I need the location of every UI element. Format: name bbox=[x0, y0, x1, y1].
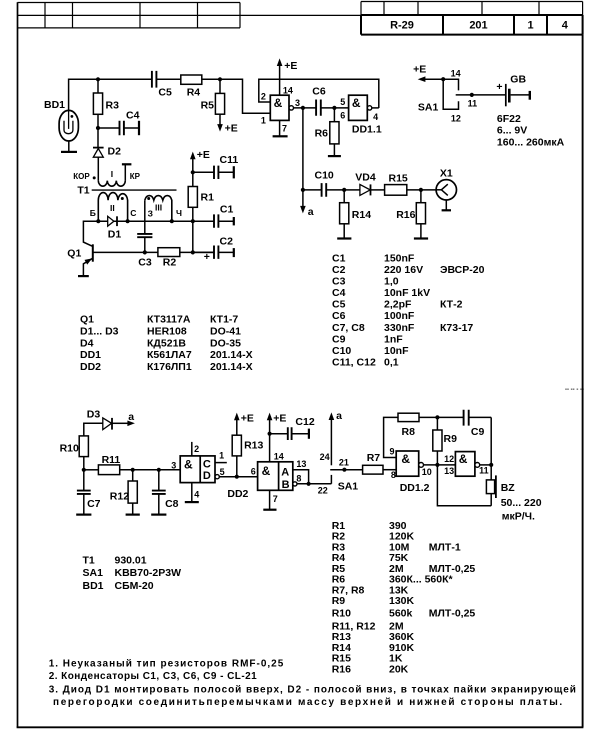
svg-text:+: + bbox=[204, 251, 210, 263]
transformer T1 winding I bbox=[98, 181, 125, 187]
resistor R3 bbox=[97, 79, 99, 93]
svg-text:C10: C10 bbox=[332, 345, 351, 357]
svg-text:C7: C7 bbox=[87, 498, 101, 510]
svg-text:6F22: 6F22 bbox=[497, 113, 521, 125]
op-amp DD1.2 gate A bbox=[396, 451, 419, 476]
svg-text:7: 7 bbox=[282, 124, 287, 134]
frame left border bbox=[17, 2, 19, 727]
svg-text:СБМ-20: СБМ-20 bbox=[115, 580, 154, 592]
svg-text:6... 9V: 6... 9V bbox=[497, 125, 527, 137]
node a arrow down bbox=[302, 190, 304, 206]
svg-text:+E: +E bbox=[284, 60, 297, 72]
svg-text:D3: D3 bbox=[87, 409, 101, 421]
svg-text:930.01: 930.01 bbox=[115, 555, 147, 567]
svg-text:SA1: SA1 bbox=[83, 567, 104, 579]
transformer T1 winding III bbox=[145, 196, 172, 222]
op-amp DD1.2 gate B bbox=[455, 452, 475, 477]
wire: link collector rail to base rail bbox=[192, 221, 194, 252]
title block top row bbox=[361, 2, 583, 16]
capacitor C7 bbox=[83, 470, 85, 491]
svg-text:Б: Б bbox=[90, 208, 96, 218]
svg-text:II: II bbox=[110, 203, 115, 213]
wire: R4 to DD1.1 pin 1 bbox=[202, 79, 270, 113]
common bar below R12 bbox=[126, 513, 140, 515]
svg-text:DD1: DD1 bbox=[80, 349, 101, 361]
svg-text:201.14-Х: 201.14-Х bbox=[210, 349, 253, 361]
svg-text:130K: 130K bbox=[389, 595, 415, 607]
svg-text:+E: +E bbox=[225, 122, 238, 134]
svg-text:Q1: Q1 bbox=[67, 248, 81, 260]
node: R2/C2 junction bbox=[191, 250, 195, 254]
svg-text:a: a bbox=[336, 410, 342, 422]
svg-text:560k: 560k bbox=[389, 608, 413, 620]
svg-text:К176ЛП1: К176ЛП1 bbox=[147, 361, 192, 373]
wire: BD1 cathode to common bbox=[68, 141, 70, 151]
svg-text:C6: C6 bbox=[332, 310, 346, 322]
node: winding II start bbox=[96, 219, 100, 223]
svg-text:10nF: 10nF bbox=[384, 345, 409, 357]
node: SA1 contacts junction bbox=[441, 77, 445, 81]
transformer T1 core bbox=[92, 189, 177, 191]
node: C10/VD4/R14 junction bbox=[342, 188, 346, 192]
svg-text:220 16V: 220 16V bbox=[384, 264, 423, 276]
transistor Q1 bbox=[92, 244, 94, 261]
svg-text:C: C bbox=[203, 459, 211, 471]
svg-text:B: B bbox=[282, 479, 290, 491]
svg-text:D4: D4 bbox=[80, 337, 94, 349]
wire: gate AB pin 13 loop to pin 8 bbox=[293, 470, 309, 484]
svg-text:1: 1 bbox=[219, 451, 224, 461]
svg-text:К561ЛА7: К561ЛА7 bbox=[147, 349, 192, 361]
svg-text:&: & bbox=[274, 96, 283, 110]
common bar below BD1 bbox=[61, 151, 77, 153]
capacitor C9 bbox=[437, 416, 491, 418]
svg-text:D1: D1 bbox=[108, 229, 122, 241]
power +E arrow below R5 bbox=[217, 124, 223, 132]
svg-text:DD1.1: DD1.1 bbox=[352, 124, 382, 136]
svg-text:4: 4 bbox=[562, 20, 569, 32]
top-left revision table bbox=[18, 3, 241, 28]
svg-text:9: 9 bbox=[390, 447, 395, 457]
capacitor C2 bbox=[193, 251, 234, 253]
svg-text:GB: GB bbox=[510, 73, 526, 85]
svg-text:8: 8 bbox=[391, 470, 396, 480]
svg-text:a: a bbox=[308, 206, 314, 218]
svg-text:&: & bbox=[262, 464, 271, 478]
common bar below R16 bbox=[414, 237, 428, 239]
svg-text:A: A bbox=[281, 467, 289, 479]
svg-text:C9: C9 bbox=[332, 333, 346, 345]
svg-text:З: З bbox=[148, 208, 153, 218]
node: C6/R6/pin5 junction bbox=[332, 106, 336, 110]
wire: pin 11 output node bbox=[480, 464, 492, 466]
svg-text:5: 5 bbox=[220, 467, 225, 477]
svg-text:1. Неуказаный тип резисторов R: 1. Неуказаный тип резисторов RMF-0,25 bbox=[49, 659, 285, 670]
svg-text:2: 2 bbox=[194, 444, 199, 454]
svg-text:R3: R3 bbox=[106, 100, 120, 112]
resistor R2 bbox=[158, 248, 180, 257]
svg-text:0,1: 0,1 bbox=[384, 356, 399, 368]
svg-text:C11: C11 bbox=[220, 154, 239, 166]
svg-text:VD4: VD4 bbox=[355, 172, 376, 184]
wire: gate AB pin 8 output to SA1 contact 22 bbox=[297, 483, 331, 485]
common bar below R6 bbox=[328, 155, 341, 157]
svg-text:13: 13 bbox=[444, 466, 454, 476]
svg-text:14: 14 bbox=[274, 452, 284, 462]
capacitor C12 bbox=[270, 433, 309, 435]
node: R13 bottom junction bbox=[235, 475, 239, 479]
svg-text:&: & bbox=[459, 452, 468, 466]
svg-text:DO-41: DO-41 bbox=[210, 325, 241, 337]
wire: feedback DD1.1 pin4 to pin2 bbox=[259, 79, 379, 108]
node a arrow right (D3) bbox=[112, 422, 128, 424]
svg-text:C3: C3 bbox=[138, 257, 152, 269]
wire: pin 12/13 node down to bottom rail bbox=[437, 465, 491, 506]
node: KOP dot bbox=[93, 176, 96, 179]
wire: gate AB pin 14 to +E bbox=[269, 420, 271, 462]
svg-text:11: 11 bbox=[468, 99, 478, 109]
svg-text:KBB70-2P3W: KBB70-2P3W bbox=[115, 567, 182, 579]
svg-text:13: 13 bbox=[296, 459, 306, 469]
svg-text:22: 22 bbox=[318, 486, 328, 496]
resistor R16 bbox=[420, 190, 422, 203]
svg-text:R10: R10 bbox=[60, 443, 79, 455]
svg-text:R16: R16 bbox=[396, 209, 415, 221]
svg-text:R15: R15 bbox=[389, 173, 408, 185]
resistor R5 bbox=[219, 79, 221, 93]
switch SA1 pole 21 bbox=[330, 469, 362, 471]
resistor R1 bbox=[188, 187, 197, 208]
title block main row bbox=[361, 15, 583, 35]
switch SA1 contact 22 bbox=[330, 475, 332, 484]
connector X1 bbox=[436, 180, 456, 200]
node: R1 top / C11 junction bbox=[191, 170, 195, 174]
wire: DD1.1 pin 7 to common bbox=[279, 120, 281, 135]
svg-text:24: 24 bbox=[320, 452, 330, 462]
svg-text:R2: R2 bbox=[163, 257, 177, 269]
svg-text:HER108: HER108 bbox=[147, 325, 187, 337]
svg-text:R9: R9 bbox=[332, 595, 346, 607]
svg-text:КТ3117А: КТ3117А bbox=[147, 314, 191, 326]
svg-text:X1: X1 bbox=[440, 168, 453, 180]
svg-text:C12: C12 bbox=[295, 416, 314, 428]
wire: R7 to DD1.2 pin 8 bbox=[383, 469, 396, 471]
resistor R6 bbox=[333, 108, 335, 122]
svg-text:C5: C5 bbox=[332, 299, 346, 311]
node: R1/C1 junction bbox=[191, 219, 195, 223]
svg-text:R9: R9 bbox=[444, 433, 458, 445]
svg-text:BD1: BD1 bbox=[44, 99, 65, 111]
capacitor C3 bbox=[137, 234, 152, 237]
svg-text:+E: +E bbox=[197, 149, 210, 161]
wire: DD1.1 pin 14 to +E bbox=[279, 66, 281, 96]
svg-text:+E: +E bbox=[413, 64, 426, 76]
svg-text:C2: C2 bbox=[220, 236, 234, 248]
svg-text:КТ-2: КТ-2 bbox=[440, 299, 463, 311]
svg-text:100nF: 100nF bbox=[384, 310, 415, 322]
svg-text:+: + bbox=[496, 81, 502, 93]
node: C8 junction bbox=[157, 468, 161, 472]
node: C12 junction bbox=[268, 432, 272, 436]
svg-text:201: 201 bbox=[469, 20, 487, 32]
svg-text:R1: R1 bbox=[201, 192, 215, 204]
svg-text:4: 4 bbox=[373, 112, 378, 122]
svg-text:3: 3 bbox=[171, 461, 176, 471]
svg-text:C1: C1 bbox=[332, 253, 346, 265]
op-amp DD2 gate CD bbox=[180, 456, 215, 483]
svg-text:КОР: КОР bbox=[73, 172, 90, 181]
common bar below C7 bbox=[76, 513, 91, 515]
svg-text:201.14-Х: 201.14-Х bbox=[210, 361, 253, 373]
svg-text:R14: R14 bbox=[352, 209, 371, 221]
svg-text:&: & bbox=[184, 458, 193, 472]
svg-text:КТ1-7: КТ1-7 bbox=[210, 314, 238, 326]
svg-text:-- -- - --: -- -- - -- bbox=[565, 387, 584, 393]
svg-text:R6: R6 bbox=[315, 128, 329, 140]
svg-text:Ч: Ч bbox=[176, 208, 182, 218]
node: junction R3/top rail bbox=[96, 77, 100, 81]
resistor R13 bbox=[232, 435, 241, 456]
svg-text:BZ: BZ bbox=[501, 482, 516, 494]
resistor R12 bbox=[132, 470, 134, 481]
wire: base rail bbox=[93, 251, 214, 253]
power +E arrow left (SA1 top) bbox=[425, 78, 443, 80]
svg-text:BD1: BD1 bbox=[83, 580, 104, 592]
svg-text:D: D bbox=[203, 470, 211, 482]
wire: DD2 pin 4 to common bbox=[191, 483, 193, 502]
svg-text:C8: C8 bbox=[165, 498, 179, 510]
wire: gate AB pin 7 to common bbox=[269, 490, 271, 509]
resistor R11 bbox=[84, 469, 99, 471]
svg-text:6: 6 bbox=[251, 466, 256, 476]
svg-text:T1: T1 bbox=[77, 185, 89, 197]
node: R4/R5 junction bbox=[218, 77, 222, 81]
svg-text:10nF 1kV: 10nF 1kV bbox=[384, 287, 430, 299]
resistor R8 bbox=[398, 413, 419, 421]
svg-text:1,0: 1,0 bbox=[384, 276, 399, 288]
transformer T1 winding II bbox=[98, 193, 127, 222]
wire: winding III start to C3 (crosses collector rail) bbox=[144, 200, 146, 233]
resistor R10 bbox=[79, 436, 88, 457]
svg-text:C2: C2 bbox=[332, 264, 346, 276]
resistor R15 bbox=[385, 185, 407, 196]
svg-text:a: a bbox=[128, 411, 134, 423]
svg-text:150nF: 150nF bbox=[384, 253, 415, 265]
wire: DD1.2 pin 9 to R8 bbox=[384, 417, 398, 457]
svg-text:DD2: DD2 bbox=[80, 361, 101, 373]
svg-text:R11: R11 bbox=[102, 454, 121, 466]
svg-text:3: 3 bbox=[295, 98, 300, 108]
capacitor C1 bbox=[193, 220, 234, 222]
svg-text:&: & bbox=[401, 452, 410, 466]
svg-text:МЛТ-1: МЛТ-1 bbox=[429, 541, 461, 553]
node: R3/C4/D2 junction bbox=[96, 126, 100, 130]
power +E arrow above R1 bbox=[192, 159, 194, 187]
diode D2 bbox=[97, 128, 99, 147]
svg-text:12: 12 bbox=[444, 454, 454, 464]
wire: pin 3 output node bbox=[294, 107, 316, 109]
svg-text:2: 2 bbox=[261, 92, 266, 102]
svg-text:D1... D3: D1... D3 bbox=[80, 325, 119, 337]
svg-text:2. Конденсаторы С1, С3, С6, С9: 2. Конденсаторы С1, С3, С6, С9 - CL-21 bbox=[49, 671, 257, 682]
wire: DD2 pin 1 stub bbox=[215, 462, 227, 464]
svg-text:6: 6 bbox=[340, 111, 345, 121]
svg-text:Q1: Q1 bbox=[80, 314, 94, 326]
svg-text:C4: C4 bbox=[126, 110, 140, 122]
capacitor C5 bbox=[152, 71, 157, 88]
power +E arrow above R13 bbox=[234, 413, 240, 421]
svg-text:ЭВСР-20: ЭВСР-20 bbox=[440, 264, 485, 276]
svg-text:С: С bbox=[130, 208, 136, 218]
switch SA1 contact 14 bbox=[443, 79, 458, 90]
svg-text:2,2pF: 2,2pF bbox=[384, 299, 412, 311]
svg-text:перегородки соединитьперемычка: перегородки соединитьперемычками массу в… bbox=[53, 697, 564, 708]
frame bottom border bbox=[17, 726, 584, 728]
svg-text:R13: R13 bbox=[244, 440, 263, 452]
svg-text:160... 260мкА: 160... 260мкА bbox=[497, 137, 565, 149]
svg-text:3. Диод D1 монтировать полосой: 3. Диод D1 монтировать полосой вверх, D2… bbox=[49, 684, 577, 695]
svg-text:10: 10 bbox=[422, 467, 432, 477]
node: C3 bottom junction bbox=[143, 250, 147, 254]
svg-text:8: 8 bbox=[296, 474, 301, 484]
battery GB bbox=[505, 84, 507, 106]
svg-text:C4: C4 bbox=[332, 287, 346, 299]
resistor R9 bbox=[436, 417, 438, 430]
svg-text:К73-17: К73-17 bbox=[440, 322, 473, 334]
capacitor C6 bbox=[316, 100, 321, 116]
svg-text:4: 4 bbox=[194, 490, 199, 500]
wire: DD2 pin 2 stub bbox=[191, 442, 193, 456]
switch SA1 pole 11 bbox=[456, 94, 506, 96]
resistor R4 bbox=[181, 75, 202, 84]
svg-text:мкР/Ч.: мкР/Ч. bbox=[502, 511, 535, 523]
wire: winding I end KP stub bbox=[124, 164, 126, 180]
svg-text:1: 1 bbox=[261, 116, 266, 126]
svg-text:I: I bbox=[111, 169, 113, 179]
svg-text:11: 11 bbox=[479, 466, 489, 476]
svg-text:12: 12 bbox=[451, 114, 461, 124]
svg-text:20K: 20K bbox=[389, 663, 409, 675]
svg-text:R-29: R-29 bbox=[390, 20, 414, 32]
svg-text:DD2: DD2 bbox=[227, 488, 248, 500]
svg-text:КД521В: КД521В bbox=[147, 337, 186, 349]
capacitor C11 bbox=[193, 171, 234, 173]
op-amp DD1.1 gate A bbox=[270, 95, 289, 120]
resistor R7 bbox=[363, 465, 383, 474]
svg-text:50... 220: 50... 220 bbox=[501, 497, 542, 509]
svg-text:C9: C9 bbox=[471, 426, 485, 438]
svg-text:C1: C1 bbox=[220, 204, 234, 216]
op-amp DD1.1 gate B bbox=[349, 95, 368, 120]
node: R12 junction bbox=[131, 468, 135, 472]
geiger tube BD1 bbox=[59, 110, 78, 141]
svg-text:14: 14 bbox=[283, 86, 293, 96]
frame right border bbox=[582, 35, 584, 728]
wire: R11 to DD2 pin 3 bbox=[120, 469, 181, 471]
svg-text:1: 1 bbox=[527, 20, 533, 32]
common bar below Q1 emitter bbox=[78, 275, 89, 277]
svg-text:&: & bbox=[352, 96, 361, 110]
svg-text:R7: R7 bbox=[367, 452, 381, 464]
buzzer BZ bbox=[490, 465, 492, 480]
svg-text:1nF: 1nF bbox=[384, 333, 403, 345]
wire: DD2 pin 5 to pin 6 bbox=[219, 476, 257, 478]
switch SA1 contact 12 bbox=[443, 79, 458, 109]
svg-text:C10: C10 bbox=[315, 170, 334, 182]
svg-text:+E: +E bbox=[273, 413, 286, 425]
svg-text:+E: +E bbox=[241, 413, 254, 425]
wire: collector rail (right) to C1 bbox=[114, 220, 214, 222]
wire: top rail BD1 to C5 bbox=[69, 79, 152, 110]
diode D3 bbox=[84, 423, 103, 436]
svg-text:КР: КР bbox=[130, 172, 141, 181]
svg-text:C7, C8: C7, C8 bbox=[332, 322, 365, 334]
svg-text:SA1: SA1 bbox=[338, 481, 359, 493]
svg-text:DD1.2: DD1.2 bbox=[400, 482, 430, 494]
wire: C9 right down to pin 11 node bbox=[490, 417, 492, 465]
op-amp DD2 gate AB bbox=[258, 462, 293, 491]
svg-text:T1: T1 bbox=[83, 555, 95, 567]
svg-text:C5: C5 bbox=[158, 87, 172, 99]
resistor R14 bbox=[343, 190, 345, 203]
diode VD4 bbox=[344, 189, 360, 191]
frame top line connecting table to title block bbox=[240, 14, 361, 16]
common bar below C8 bbox=[151, 513, 166, 515]
svg-text:R12: R12 bbox=[110, 491, 129, 503]
node: winding III end bbox=[170, 219, 174, 223]
svg-text:SA1: SA1 bbox=[418, 102, 439, 114]
svg-text:C11, C12: C11, C12 bbox=[332, 356, 376, 368]
svg-text:C3: C3 bbox=[332, 276, 346, 288]
svg-text:R4: R4 bbox=[187, 87, 201, 99]
svg-text:14: 14 bbox=[451, 68, 461, 78]
wire: DD1.2 pin 10 output to gate B input bbox=[424, 464, 456, 466]
wire: node a vertical from pin3 bbox=[302, 108, 304, 190]
node: R10/R11/C7 junction bbox=[82, 468, 86, 472]
svg-text:R5: R5 bbox=[201, 100, 215, 112]
node: winding II end bbox=[126, 219, 130, 223]
svg-text:C6: C6 bbox=[312, 86, 326, 98]
svg-text:R16: R16 bbox=[332, 663, 351, 675]
svg-text:7: 7 bbox=[273, 494, 278, 504]
svg-text:330nF: 330nF bbox=[384, 322, 415, 334]
capacitor C8 bbox=[158, 470, 160, 491]
capacitor C10 bbox=[303, 189, 344, 191]
svg-text:R8: R8 bbox=[402, 426, 416, 438]
wire: collector rail (left) bbox=[83, 221, 107, 246]
svg-text:5: 5 bbox=[340, 97, 345, 107]
node a arrow up (SA1 contact 24) bbox=[330, 420, 332, 466]
svg-text:R10: R10 bbox=[332, 608, 351, 620]
wire: R8 to R9/C9 junction bbox=[419, 416, 437, 418]
common bar below R14 bbox=[337, 237, 351, 239]
svg-text:III: III bbox=[155, 203, 162, 213]
capacitor C4 bbox=[98, 127, 139, 129]
svg-text:DO-35: DO-35 bbox=[210, 337, 241, 349]
node: R15/R16/X1 junction bbox=[419, 188, 423, 192]
svg-text:МЛТ-0,25: МЛТ-0,25 bbox=[429, 608, 476, 620]
svg-text:D2: D2 bbox=[108, 146, 122, 158]
diode D1 bbox=[108, 216, 114, 226]
svg-text:21: 21 bbox=[339, 458, 349, 468]
